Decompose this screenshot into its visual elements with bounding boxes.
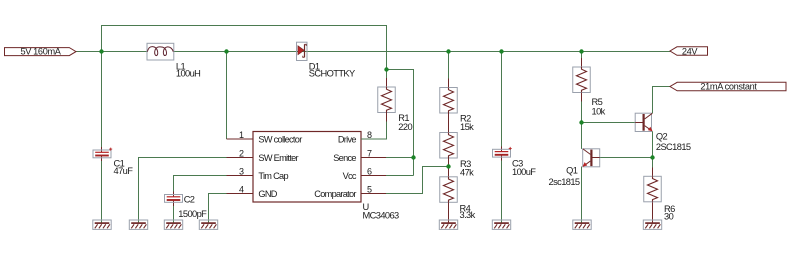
inductor L1 100uH: [147, 43, 174, 60]
junction: [446, 164, 450, 168]
lead C3 bottom: [501, 155, 503, 161]
port flag 5V 160mA: [5, 47, 77, 57]
resistor R2 15k: [440, 88, 458, 114]
junction: [579, 120, 583, 124]
svg-text:100uF: 100uF: [512, 167, 536, 177]
transistor Q1 2sc1815 (mirrored): [583, 149, 600, 167]
svg-text:10k: 10k: [592, 106, 606, 116]
wire Q2 emitter down to R6: [652, 131, 654, 167]
svg-text:3.3k: 3.3k: [460, 210, 476, 220]
svg-text:7: 7: [367, 149, 372, 159]
pin 6 stub Vcc: [361, 175, 386, 177]
wire pin 5 comparator to R3/R4 node: [386, 167, 449, 194]
wire 24V rail down to C3: [501, 52, 503, 147]
wire C1 column: [101, 52, 103, 148]
ground: [573, 220, 591, 229]
wire R1 to pin 8 Drive: [361, 122, 387, 140]
svg-text:3: 3: [239, 167, 244, 177]
lead R4 to ground: [448, 202, 450, 223]
lead R2 top: [448, 79, 450, 88]
svg-text:30: 30: [664, 212, 674, 222]
svg-text:1500pF: 1500pF: [178, 209, 207, 219]
lead C1 top: [101, 147, 103, 153]
pin 2 stub SW Emitter: [227, 157, 254, 159]
svg-text:Vcc: Vcc: [343, 171, 357, 181]
lead R1 bottom: [386, 113, 388, 122]
lead R5 bottom: [581, 93, 583, 102]
resistor R5 10k: [573, 67, 591, 93]
svg-text:2SC1815: 2SC1815: [656, 142, 691, 152]
svg-text:1: 1: [239, 130, 244, 140]
pin 1 stub SW collector: [227, 138, 254, 140]
svg-text:SCHOTTKY: SCHOTTKY: [309, 69, 355, 79]
wire Q1 base to Q2 emitter node: [600, 157, 653, 159]
wire pin 2 to ground: [139, 158, 227, 224]
svg-text:Sence: Sence: [333, 153, 356, 163]
ground: [199, 220, 217, 229]
wire junction down to pin 1: [226, 52, 228, 140]
wire pin 6 Vcc: [386, 175, 414, 177]
junction: [499, 49, 503, 53]
svg-text:24V: 24V: [682, 46, 699, 56]
svg-text:21mA constant: 21mA constant: [700, 82, 757, 92]
ground: [164, 220, 182, 229]
svg-text:5: 5: [367, 185, 372, 195]
wire 24V rail down to R2: [448, 52, 450, 79]
wire C1 to ground: [101, 161, 103, 223]
capacitor C1 47uF: [93, 148, 112, 158]
ground: [643, 220, 661, 229]
pin 7 stub Sence: [361, 157, 386, 159]
lead C2 top: [173, 192, 175, 198]
wire pin 7 Sence: [386, 157, 414, 159]
lead R3-R4 with comparator tap: [448, 158, 450, 177]
wire C3 to ground: [501, 161, 503, 224]
wire node to Vcc/Sence column: [387, 70, 414, 176]
wire junction to R1: [386, 70, 388, 79]
pin 3 stub Tim Cap: [227, 175, 254, 177]
wire C2 to ground: [173, 206, 175, 223]
ground: [492, 220, 510, 229]
svg-text:Drive: Drive: [338, 134, 357, 144]
svg-text:4: 4: [239, 185, 244, 195]
lead R2-R3: [448, 113, 450, 133]
svg-text:2sc1815: 2sc1815: [549, 177, 580, 187]
lead R5 top: [581, 58, 583, 67]
junction: [384, 67, 388, 71]
lead R6 bottom to ground: [652, 201, 654, 223]
svg-text:5V 160mA: 5V 160mA: [20, 47, 61, 57]
svg-text:47k: 47k: [460, 168, 474, 178]
wire 24V rail down to R5: [581, 52, 583, 59]
diode D1 SCHOTTKY: [297, 42, 308, 60]
svg-text:MC34063: MC34063: [363, 211, 400, 221]
ground: [129, 220, 147, 229]
junction: [224, 49, 228, 53]
wire junction to L1: [102, 51, 148, 53]
lead R1 top: [386, 78, 388, 87]
pin 8 stub Drive: [361, 138, 386, 140]
svg-text:Q1: Q1: [566, 165, 578, 175]
svg-text:GND: GND: [258, 189, 277, 199]
svg-text:Comparator: Comparator: [314, 189, 356, 199]
resistor R4 3.3k: [440, 177, 458, 203]
transistor Q2 2SC1815: [635, 113, 652, 131]
pin 5 stub Comparator: [361, 193, 386, 195]
svg-text:100uH: 100uH: [176, 69, 200, 79]
svg-text:6: 6: [367, 167, 372, 177]
resistor R3 47k: [440, 133, 458, 159]
svg-text:SW collector: SW collector: [258, 134, 302, 144]
wire R5 to Q1 collector (node with Q2 base): [581, 102, 583, 149]
wire node to Q2 base: [582, 122, 636, 124]
junction: [650, 155, 654, 159]
svg-text:2: 2: [239, 149, 244, 159]
pin 4 stub GND: [227, 193, 254, 195]
lead C3 top: [501, 147, 503, 153]
svg-text:Tim Cap: Tim Cap: [258, 171, 288, 181]
svg-text:47uF: 47uF: [114, 166, 134, 176]
svg-text:C2: C2: [184, 195, 195, 205]
ground: [93, 220, 111, 229]
wire Q2 collector to 21mA flag: [653, 87, 671, 114]
junction: [99, 49, 103, 53]
wire L1 to D1 anode and on to 24V flag (24V net): [174, 51, 671, 53]
resistor R1 220: [378, 87, 396, 113]
junction: [411, 155, 415, 159]
IC U MC34063 body: [253, 132, 361, 203]
wire pin 3 to C2: [174, 176, 227, 192]
resistor R6 30: [644, 176, 662, 202]
junction: [446, 49, 450, 53]
junction: [579, 49, 583, 53]
ground: [439, 220, 457, 229]
wire pin 4 to ground: [209, 194, 227, 224]
svg-text:15k: 15k: [460, 122, 474, 132]
svg-text:SW Emitter: SW Emitter: [258, 153, 298, 163]
wire 5V input flag to junction: [76, 51, 102, 53]
wire Q1 emitter to ground: [581, 167, 583, 224]
port flag 21mA constant: [670, 82, 786, 92]
lead R6 top: [652, 168, 654, 177]
svg-text:220: 220: [398, 122, 412, 132]
capacitor C2 1500pF: [165, 195, 183, 203]
lead C1 bottom: [101, 156, 103, 162]
capacitor C3 100uF: [493, 147, 512, 157]
lead C2 bottom: [173, 200, 175, 206]
wire top 5V rail: [102, 26, 387, 70]
port flag 24V: [670, 46, 708, 56]
svg-text:Q2: Q2: [656, 132, 668, 142]
